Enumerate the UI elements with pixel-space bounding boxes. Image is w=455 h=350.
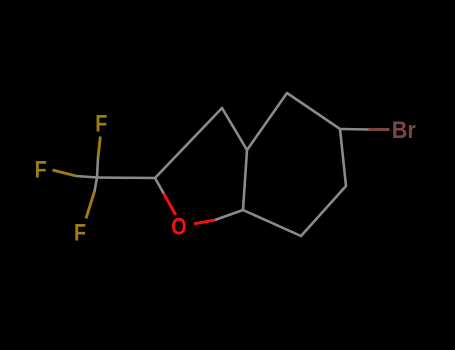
svg-text:O: O xyxy=(171,213,186,240)
svg-text:Br: Br xyxy=(392,116,416,143)
svg-text:F: F xyxy=(95,109,107,136)
svg-text:F: F xyxy=(74,219,86,246)
svg-text:F: F xyxy=(35,156,47,183)
